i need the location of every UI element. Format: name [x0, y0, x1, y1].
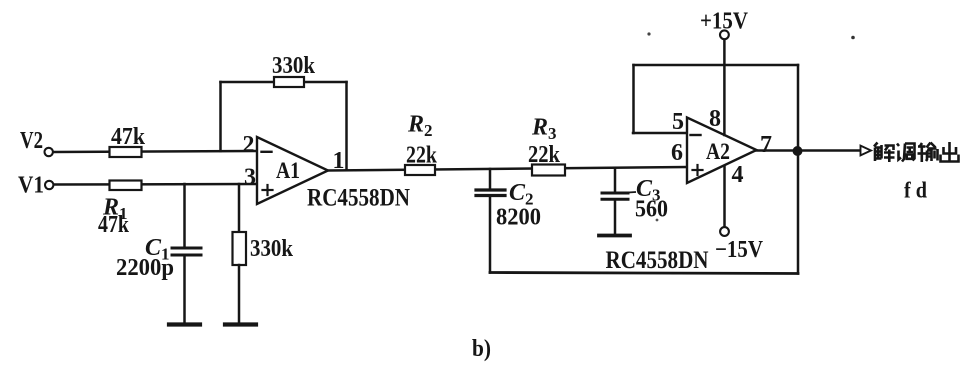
resistor 47k (V2 input) [110, 147, 142, 157]
svg-text:RC4558DN: RC4558DN [606, 247, 709, 274]
node output junction dot [794, 147, 801, 154]
wire bottom feedback horizontal [490, 273, 798, 274]
resistor 330k (pin 3 to ground) [233, 232, 247, 265]
svg-text:f d: f d [904, 178, 927, 203]
svg-text:4: 4 [732, 162, 744, 188]
svg-text:V1: V1 [18, 173, 44, 199]
wire A2 feedback loop left vertical [632, 65, 635, 133]
svg-text:b): b) [472, 336, 491, 362]
A1 inverting input minus sign [262, 151, 272, 153]
svg-text:RC4558DN: RC4558DN [307, 185, 410, 212]
svg-text:1: 1 [333, 148, 345, 174]
svg-text:A1: A1 [276, 158, 300, 183]
wire C2 down to bottom feedback [489, 197, 492, 273]
resistor R3 22k [532, 165, 565, 176]
svg-text:47k: 47k [98, 212, 130, 238]
svg-text:2: 2 [243, 132, 255, 158]
svg-text:A2: A2 [706, 139, 730, 164]
node +15V terminal [720, 30, 729, 39]
svg-text:7: 7 [760, 132, 772, 158]
wire 330k to ground [238, 265, 241, 322]
svg-text:8200: 8200 [496, 205, 541, 231]
svg-text:22k: 22k [528, 142, 561, 168]
svg-text:47k: 47k [111, 124, 146, 150]
svg-text:V2: V2 [20, 128, 43, 154]
speck artifact left [647, 32, 650, 35]
svg-text:2200p: 2200p [116, 255, 174, 281]
speck artifact right [851, 36, 855, 40]
label 调 (hand-drawn) [897, 144, 915, 162]
resistor 330k (A1 feedback) [274, 77, 304, 87]
speck artifact near 560 [656, 219, 659, 222]
wire A2 feedback loop right vertical [797, 65, 800, 274]
svg-text:330k: 330k [272, 53, 316, 79]
svg-text:330k: 330k [250, 236, 294, 262]
wire pin 4 to -15V [723, 166, 726, 227]
ground (under C3) [599, 234, 630, 238]
wire A1 output main line to pin 6 [328, 167, 687, 171]
ground (under 330k) [225, 322, 256, 326]
label 输 (hand-drawn) [918, 143, 938, 163]
svg-text:−15V: −15V [715, 237, 764, 263]
node -15V terminal [720, 227, 729, 236]
svg-text:8: 8 [709, 106, 721, 132]
resistor R1 47k [110, 181, 142, 191]
node output arrowhead [861, 146, 872, 156]
svg-text:+15V: +15V [700, 9, 749, 35]
capacitor C3 560 [602, 193, 628, 199]
svg-text:R2: R2 [407, 112, 433, 141]
svg-text:560: 560 [635, 197, 668, 223]
wire A2 feedback loop top horizontal [634, 64, 799, 67]
wire C3 branch vertical [614, 169, 617, 193]
label 出 (hand-drawn) [941, 142, 959, 162]
A1 non-inverting input plus sign [263, 185, 273, 195]
op-amp A1 [257, 137, 328, 204]
label 解 (hand-drawn) [874, 143, 895, 163]
svg-text:6: 6 [671, 140, 683, 166]
wire V2 input to pin 2 [54, 151, 258, 152]
label C3 pointer dash [628, 191, 636, 194]
svg-text:R3: R3 [531, 115, 557, 144]
capacitor C1 2200p [172, 248, 201, 255]
wire C1 to ground [183, 257, 186, 323]
capacitor C2 8200 [476, 190, 505, 196]
A2 inverting input minus sign [691, 134, 701, 136]
svg-text:22k: 22k [406, 143, 438, 169]
A2 non-inverting input plus sign [693, 165, 703, 175]
wire feedback top horizontal [221, 81, 347, 84]
node V2 input terminal [45, 148, 53, 156]
wire 330k branch vertical [238, 184, 241, 232]
wire C1 branch vertical [183, 184, 186, 247]
op-amp A2 [687, 118, 757, 184]
svg-text:3: 3 [244, 165, 256, 191]
ground (under C1) [169, 322, 200, 326]
wire A2 output to arrow [757, 149, 861, 152]
wire C3 to ground [614, 200, 617, 234]
wire +15V to pin 8 [723, 40, 726, 136]
wire C2 branch vertical [489, 169, 492, 189]
wire pin 5 horizontal [633, 132, 687, 135]
wire V1 input to pin 3 [53, 183, 258, 186]
wire feedback left vertical [219, 82, 222, 151]
resistor R2 22k [405, 165, 435, 175]
node V1 input terminal [45, 181, 53, 189]
wire feedback right vertical [345, 82, 348, 170]
svg-text:5: 5 [672, 109, 684, 135]
